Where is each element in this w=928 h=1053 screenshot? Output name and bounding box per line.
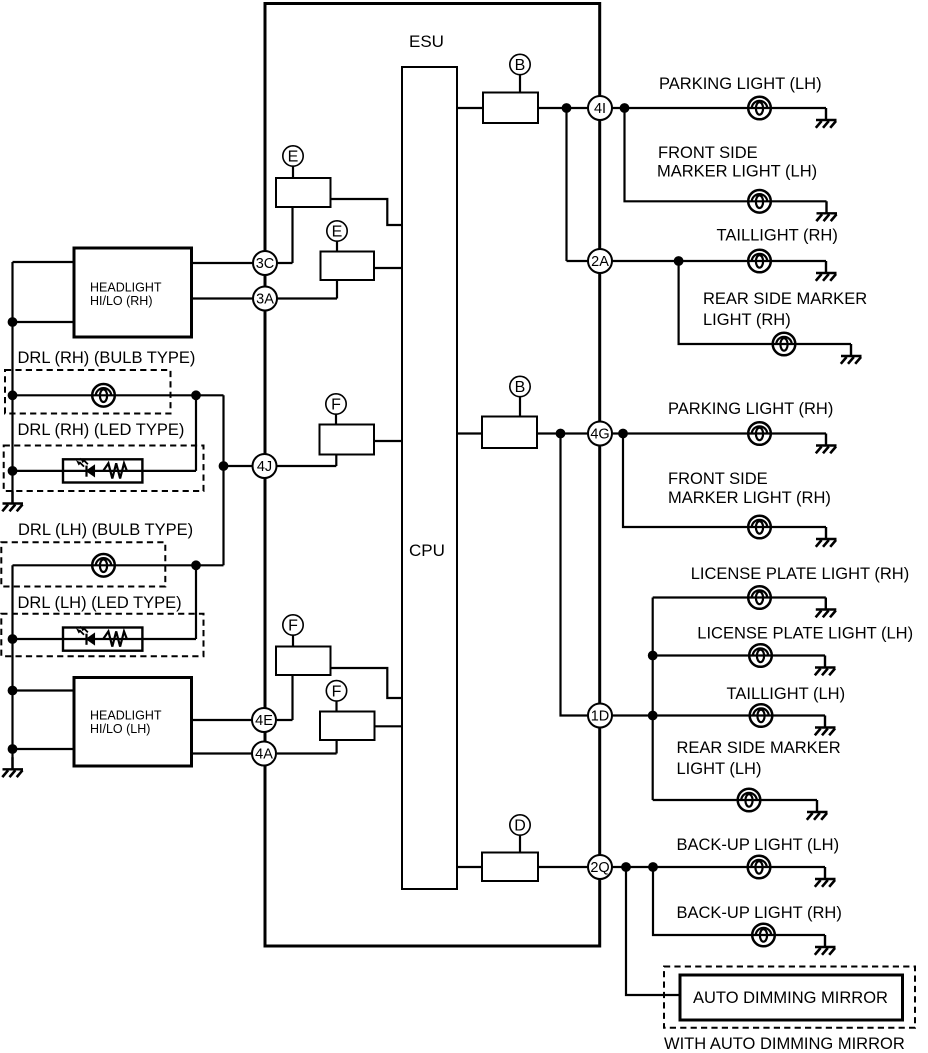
svg-text:1D: 1D — [591, 709, 610, 725]
svg-text:4E: 4E — [255, 713, 273, 729]
ground: taillight LH — [815, 716, 836, 736]
ground: front side marker LH — [816, 201, 837, 221]
svg-text:MARKER LIGHT (LH): MARKER LIGHT (LH) — [657, 163, 817, 181]
wire: LED row riser to bulb-row junction — [195, 395, 197, 471]
node: junction 1 right of 2Q — [621, 862, 631, 872]
ground: parking light LH — [816, 108, 837, 128]
node: bus junction DRL RH LED — [8, 466, 18, 476]
svg-text:LIGHT (RH): LIGHT (RH) — [703, 311, 791, 329]
relay F3 circle — [326, 681, 346, 701]
relay D1 circle — [510, 815, 530, 835]
wire: CPU to B2 — [457, 432, 482, 434]
wire: to front side marker LH — [625, 108, 827, 201]
wire: headlight RH to 3C — [192, 262, 253, 264]
relay E2 box — [321, 252, 375, 281]
dashed box: DRL RH bulb type — [5, 370, 171, 414]
relay B2 box — [482, 417, 537, 449]
wire: E1 circle to box — [292, 167, 294, 179]
lamp: license plate light LH — [749, 644, 772, 667]
node: junction license LH row — [648, 651, 658, 661]
wire: CPU to B1 — [457, 107, 483, 109]
connector 3A — [253, 287, 277, 311]
wire: B1 circle to box — [519, 75, 521, 93]
wire: headlight LH to 4E — [192, 719, 253, 721]
wire: 2Q to back-up light LH — [612, 866, 825, 868]
svg-text:PARKING LIGHT (RH): PARKING LIGHT (RH) — [668, 400, 833, 418]
svg-text:DRL (LH) (BULB TYPE): DRL (LH) (BULB TYPE) — [18, 521, 193, 539]
svg-text:DRL (RH) (BULB TYPE): DRL (RH) (BULB TYPE) — [18, 349, 196, 367]
ground: license plate LH — [815, 656, 836, 676]
lamp: back-up light RH — [752, 924, 775, 947]
ground: back-up light RH — [815, 935, 836, 955]
wire: headlight LH to 4A — [192, 752, 253, 754]
wire: bus to headlight LH upper — [13, 689, 75, 691]
wire: F2 down to 4E — [277, 675, 293, 720]
node: junction right of DRL RH bulb — [191, 390, 201, 400]
wire: F1 down to 4J — [277, 455, 336, 467]
wire: 4I to parking light LH — [612, 107, 826, 109]
svg-text:4G: 4G — [590, 427, 609, 443]
wire: junction to 4J — [224, 465, 253, 467]
wire: license plate vertical feeder — [652, 598, 654, 801]
relay F1 circle — [326, 394, 346, 414]
node: bus junction at headlight RH lower — [8, 317, 18, 327]
connector 3C — [253, 251, 277, 275]
wire: E2 out to CPU — [374, 267, 402, 269]
node: junction at 4J row — [219, 461, 229, 471]
wire: F1 circle to box — [335, 415, 337, 425]
auto dimming mirror box — [680, 975, 903, 1020]
dashed box: DRL LH bulb type — [1, 542, 165, 586]
svg-text:FRONT SIDE: FRONT SIDE — [668, 470, 768, 488]
connector 2A — [588, 249, 612, 273]
svg-text:DRL (LH) (LED TYPE): DRL (LH) (LED TYPE) — [18, 594, 182, 612]
ground: taillight RH — [816, 261, 837, 281]
wire: B1 to 4I — [538, 107, 587, 109]
lamp: DRL RH bulb — [92, 384, 115, 407]
wire: to rear side marker LH — [653, 799, 817, 801]
connector 4J — [253, 454, 277, 478]
connector 2Q — [588, 855, 612, 879]
wire: DRL LH bulb row — [13, 564, 224, 566]
wire: 2Q to auto dimming mirror — [626, 867, 680, 995]
svg-text:ESU: ESU — [409, 32, 444, 51]
svg-text:FRONT SIDE: FRONT SIDE — [658, 144, 758, 162]
wire: E2 down to 3A — [278, 280, 337, 299]
ground: front side marker RH — [816, 527, 837, 547]
wire: DRL LH LED row — [13, 638, 197, 640]
headlight RH box — [74, 248, 192, 337]
svg-text:B: B — [515, 57, 526, 74]
wire: license plate light RH row — [653, 596, 826, 598]
svg-text:F: F — [331, 397, 341, 414]
lamp: back-up light LH — [748, 856, 771, 879]
svg-text:3A: 3A — [256, 292, 274, 308]
wire: DRL RH bulb row — [13, 394, 224, 396]
relay D1 box — [482, 853, 538, 882]
svg-text:F: F — [332, 683, 342, 700]
svg-text:4J: 4J — [257, 459, 272, 475]
svg-text:2Q: 2Q — [590, 860, 609, 876]
svg-text:TAILLIGHT (RH): TAILLIGHT (RH) — [717, 227, 838, 245]
lamp: DRL LH bulb — [92, 554, 115, 577]
wire: RH ground bus vertical — [11, 262, 13, 504]
wire: 1D to taillight LH — [612, 714, 825, 716]
LED unit RH box — [63, 459, 142, 482]
ground: rear side marker RH — [841, 344, 862, 364]
connector 1D — [588, 704, 612, 728]
LED D2 with resistor R2 — [77, 627, 127, 647]
wire: F2 out to CPU — [331, 668, 403, 698]
CPU box U2 — [402, 67, 457, 889]
wire: 4G to parking light RH — [612, 432, 826, 434]
wire: B2 to 4G — [537, 432, 587, 434]
wire: vertical to 4J junction — [222, 395, 224, 565]
ESU box U1 — [265, 4, 600, 947]
wire: LH ground bus vertical — [11, 565, 13, 769]
node: junction right of DRL LH bulb — [191, 560, 201, 570]
svg-text:3C: 3C — [256, 256, 275, 272]
svg-text:WITH AUTO DIMMING MIRROR: WITH AUTO DIMMING MIRROR — [664, 1035, 905, 1053]
svg-text:HI/LO (LH): HI/LO (LH) — [90, 722, 150, 736]
relay E1 circle — [283, 146, 303, 166]
wire: CPU to D1 — [457, 866, 482, 868]
ground: license plate RH — [816, 598, 837, 618]
svg-text:LICENSE PLATE LIGHT (RH): LICENSE PLATE LIGHT (RH) — [691, 565, 910, 583]
ground: back-up light LH — [815, 867, 836, 887]
svg-text:REAR SIDE MARKER: REAR SIDE MARKER — [677, 739, 841, 757]
relay F2 circle — [283, 615, 303, 635]
ground: parking light RH — [816, 434, 837, 454]
svg-text:AUTO DIMMING MIRROR: AUTO DIMMING MIRROR — [693, 989, 888, 1007]
wire: 4I junction down to 2A — [567, 108, 588, 261]
node: bus junction headlight LH lower — [8, 744, 18, 754]
node: junction left of 4G — [556, 429, 566, 439]
ground: rear side marker LH — [807, 800, 828, 820]
wire: F1 out to CPU — [374, 440, 402, 442]
svg-text:BACK-UP LIGHT (LH): BACK-UP LIGHT (LH) — [677, 836, 840, 854]
svg-text:DRL (RH) (LED TYPE): DRL (RH) (LED TYPE) — [18, 421, 185, 439]
wire: D1 circle to box — [519, 836, 521, 853]
svg-text:BACK-UP LIGHT (RH): BACK-UP LIGHT (RH) — [677, 904, 842, 922]
relay F1 box — [320, 425, 375, 455]
wire: F3 circle to box — [335, 701, 337, 712]
svg-text:PARKING LIGHT (LH): PARKING LIGHT (LH) — [659, 75, 822, 93]
svg-text:TAILLIGHT (LH): TAILLIGHT (LH) — [727, 685, 846, 703]
node: junction left of 4I — [562, 103, 572, 113]
svg-text:F: F — [288, 618, 298, 635]
dashed box: DRL RH LED type — [4, 446, 204, 492]
LED unit LH box — [63, 628, 142, 651]
connector 4E — [252, 708, 276, 732]
wire: to back-up light RH — [653, 867, 825, 935]
svg-text:B: B — [515, 379, 526, 396]
svg-text:HEADLIGHT: HEADLIGHT — [90, 281, 162, 295]
relay E2 circle — [327, 221, 347, 241]
wire: E1 out to CPU — [331, 199, 403, 225]
wire: B2 circle to box — [519, 397, 521, 417]
lamp: rear side marker light LH — [738, 789, 761, 812]
svg-text:HEADLIGHT: HEADLIGHT — [90, 709, 162, 723]
node: junction on taillight LH row — [648, 711, 658, 721]
svg-text:4A: 4A — [255, 747, 273, 763]
node: bus junction DRL RH bulb — [8, 390, 18, 400]
wire: bus to headlight RH upper — [13, 261, 75, 263]
LED D1 with resistor R1 — [77, 459, 127, 479]
svg-text:MARKER LIGHT (RH): MARKER LIGHT (RH) — [668, 489, 831, 507]
svg-text:LICENSE PLATE LIGHT (LH): LICENSE PLATE LIGHT (LH) — [697, 625, 913, 643]
headlight LH box — [74, 678, 192, 767]
relay B2 circle — [510, 376, 530, 396]
wire: bus to headlight LH lower — [13, 748, 75, 750]
lamp: parking light LH — [748, 97, 771, 120]
wire: D1 to 2Q — [538, 866, 587, 868]
wire: E1 down to 3C — [278, 207, 293, 263]
relay F3 box — [320, 712, 375, 741]
svg-text:D: D — [514, 818, 526, 835]
wire: 4G junction down to 1D — [561, 434, 588, 716]
connector 4A — [252, 742, 276, 766]
svg-text:HI/LO (RH): HI/LO (RH) — [90, 294, 153, 308]
svg-text:E: E — [288, 149, 299, 166]
lamp: taillight RH — [748, 250, 771, 273]
node: junction 2 right of 2Q — [648, 862, 658, 872]
relay B1 box — [483, 93, 538, 124]
svg-text:CPU: CPU — [409, 541, 445, 560]
lamp: front side marker light RH — [748, 516, 771, 539]
wire: F2 circle to box — [292, 636, 294, 647]
lamp: front side marker light LH — [748, 190, 771, 213]
wire: to rear side marker RH — [679, 261, 851, 344]
wire: DRL RH LED row — [13, 470, 197, 472]
wire: F3 out to CPU — [375, 725, 403, 727]
wire: license plate light LH row — [653, 654, 825, 656]
ground: RH bus ground — [2, 492, 23, 512]
lamp: taillight LH — [750, 704, 773, 727]
svg-text:E: E — [332, 224, 343, 241]
relay E1 box — [276, 178, 331, 207]
wire: 2A to taillight RH — [612, 260, 826, 262]
lamp: license plate light RH — [748, 586, 771, 609]
node: junction right of 4G — [618, 429, 628, 439]
connector 4G — [588, 422, 612, 446]
node: bus junction DRL LH LED — [8, 634, 18, 644]
node: junction on taillight RH row — [674, 256, 684, 266]
ground: LH bus ground — [2, 757, 23, 777]
lamp: parking light RH — [748, 422, 771, 445]
wire: headlight RH to 3A — [192, 297, 253, 299]
node: bus junction headlight LH upper — [8, 686, 18, 696]
lamp: rear side marker light RH — [773, 333, 796, 356]
wire: F3 down to 4A — [277, 740, 337, 754]
dashed box: DRL LH LED type — [1, 614, 203, 656]
svg-text:4I: 4I — [594, 101, 606, 117]
wire: LED LH riser to bulb-row junction — [195, 565, 197, 639]
dashed box: with auto dimming mirror — [664, 967, 915, 1028]
wire: to front side marker RH — [623, 434, 826, 528]
node: junction right of 4I — [620, 103, 630, 113]
connector 4I — [588, 96, 612, 120]
wire: E2 circle to box — [336, 242, 338, 252]
relay F2 box — [276, 647, 331, 676]
svg-text:REAR SIDE MARKER: REAR SIDE MARKER — [703, 290, 867, 308]
relay B1 circle — [510, 54, 530, 74]
wire: bus to headlight RH lower — [13, 321, 75, 323]
svg-text:LIGHT (LH): LIGHT (LH) — [677, 760, 762, 778]
svg-text:2A: 2A — [591, 254, 609, 270]
